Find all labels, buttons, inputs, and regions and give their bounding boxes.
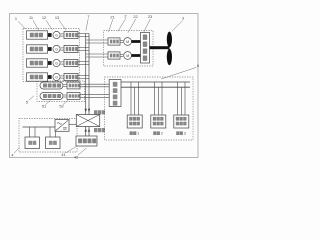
svg-text:G: G — [55, 33, 58, 37]
svg-text:5: 5 — [26, 99, 28, 104]
svg-text:M: M — [126, 40, 129, 44]
svg-text:41: 41 — [61, 152, 65, 157]
svg-text:2: 2 — [161, 132, 163, 136]
svg-text:42: 42 — [74, 155, 78, 160]
svg-text:1: 1 — [15, 16, 17, 21]
svg-text:13: 13 — [55, 15, 59, 20]
svg-text:1: 1 — [137, 132, 139, 136]
svg-text:3: 3 — [184, 132, 186, 136]
svg-text:G: G — [55, 61, 58, 65]
svg-text:21: 21 — [110, 14, 114, 19]
svg-text:M: M — [126, 54, 129, 58]
svg-text:12: 12 — [42, 15, 46, 20]
svg-text:7: 7 — [87, 14, 89, 19]
svg-text:6: 6 — [197, 63, 199, 68]
svg-text:G: G — [55, 47, 58, 51]
svg-text:3: 3 — [182, 16, 184, 21]
svg-text:22: 22 — [133, 14, 137, 19]
svg-text:11: 11 — [29, 15, 33, 20]
svg-text:G: G — [55, 75, 58, 79]
svg-text:23: 23 — [148, 14, 152, 19]
svg-text:2: 2 — [124, 13, 126, 18]
